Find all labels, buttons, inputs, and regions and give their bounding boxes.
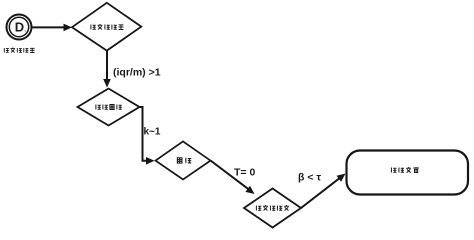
start terminal D1 (double circle) xyxy=(7,15,32,40)
label: 描述性统计 xyxy=(4,48,34,53)
arrowhead into diamond 2 xyxy=(103,79,111,88)
decision diamond: 预测间隔 xyxy=(78,89,140,126)
wire: diamond 2 elbow right-down-right xyxy=(140,107,148,161)
arrowhead into diamond 3 xyxy=(146,157,155,165)
decision diamond: 收敛性指数 xyxy=(72,3,141,51)
wire: diamond 4 diagonal to terminal xyxy=(301,178,340,208)
decision diamond: 周期 xyxy=(156,141,211,179)
terminal rounded rect: 随机分布 xyxy=(347,151,469,195)
svg-text:D: D xyxy=(15,20,24,35)
svg-text:(iqr/m) >1: (iqr/m) >1 xyxy=(113,67,161,79)
svg-text:T= 0: T= 0 xyxy=(234,167,255,179)
decision diamond: 稳定性指数 xyxy=(244,189,301,228)
svg-text:β < τ: β < τ xyxy=(298,172,321,184)
wire: diamond 1 down xyxy=(106,51,108,82)
svg-text:k~1: k~1 xyxy=(144,127,161,138)
arrowhead into terminal xyxy=(337,174,346,182)
arrowhead into diamond 1 xyxy=(64,24,73,32)
arrowhead into diamond 4 xyxy=(245,186,254,194)
wire: circle to diamond 1 xyxy=(32,26,66,28)
wire: diamond 3 diagonal to diamond 4 xyxy=(211,161,250,190)
